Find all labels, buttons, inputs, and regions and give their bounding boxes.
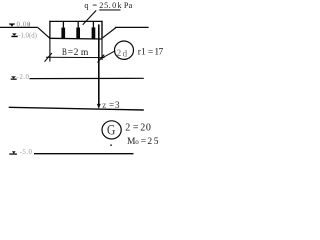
tick left: [45, 53, 52, 62]
leader from badge 1 to dimension line: [101, 51, 115, 59]
leader line from q label to load block: [83, 10, 97, 24]
svg-text:=: =: [133, 123, 139, 134]
svg-text:2: 2: [147, 137, 152, 147]
svg-text:0: 0: [112, 1, 116, 10]
svg-text:5: 5: [154, 137, 159, 147]
layer badge circle 2: [102, 121, 121, 139]
svg-text:r1: r1: [138, 48, 146, 58]
load block rectangle: [49, 21, 102, 39]
dimension line B: [46, 56, 105, 58]
underline under 25.0k: [99, 9, 120, 10]
svg-text:m: m: [81, 47, 89, 58]
excavation slope left: [38, 27, 50, 38]
dimension extension left: [49, 38, 51, 61]
elevation marker -1.0: [11, 33, 17, 37]
svg-text:2: 2: [125, 123, 130, 134]
svg-text:q: q: [84, 1, 88, 10]
svg-text:2: 2: [74, 47, 79, 58]
svg-text:2: 2: [117, 48, 122, 58]
load arrow bar 1: [61, 22, 65, 39]
svg-text:Pa: Pa: [124, 1, 133, 10]
elevation marker -5.0: [9, 151, 17, 154]
svg-text:G: G: [107, 121, 116, 138]
svg-text:o: o: [135, 138, 139, 146]
svg-text:z: z: [102, 100, 106, 110]
ground line right: [115, 26, 149, 28]
load arrow bar 2: [76, 21, 80, 38]
svg-text:=: =: [92, 1, 97, 10]
layer boundary line 2: [9, 107, 144, 110]
svg-text:=: =: [148, 48, 153, 58]
svg-text:0: 0: [146, 123, 151, 134]
svg-text:25: 25: [99, 1, 109, 10]
load arrow bar 3: [92, 21, 96, 39]
ground line left: [0, 26, 38, 28]
bottom layer line: [34, 153, 134, 155]
svg-text:.: .: [109, 1, 111, 10]
svg-text:3: 3: [115, 100, 120, 110]
small tick after label: [28, 23, 31, 27]
period dot: [110, 144, 112, 146]
dimension extension right: [101, 39, 103, 60]
water table line: [30, 77, 144, 79]
svg-text:2: 2: [140, 123, 145, 134]
svg-text:B: B: [62, 46, 67, 57]
arrowhead: [97, 104, 101, 109]
svg-text:=: =: [141, 137, 146, 147]
svg-text:-1.0(d): -1.0(d): [18, 32, 37, 39]
tick right: [98, 55, 105, 63]
svg-text:d: d: [123, 48, 128, 58]
layer badge circle 1: [115, 41, 134, 59]
water table marker -2.0: [11, 76, 17, 79]
svg-text:=: =: [68, 47, 73, 58]
svg-text:17: 17: [154, 48, 163, 58]
svg-text:-5.0: -5.0: [20, 149, 33, 156]
depth dimension line z: [98, 24, 100, 104]
excavation slope right: [103, 27, 117, 37]
svg-text:=: =: [109, 100, 114, 110]
svg-text:-2.0: -2.0: [17, 74, 30, 81]
elevation marker 0.00: [9, 23, 15, 26]
